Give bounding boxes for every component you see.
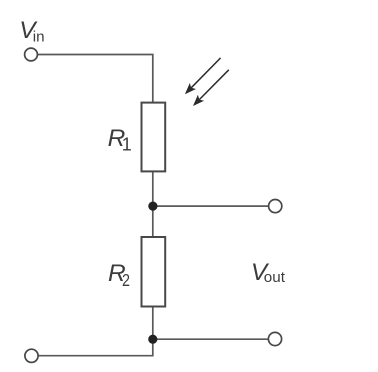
svg-text:1: 1	[122, 134, 132, 154]
wire: R2 bottom to bottom junction	[152, 307, 154, 340]
wire: R1 bottom to mid junction	[152, 171, 154, 206]
label R1	[108, 125, 132, 155]
label Vin	[19, 17, 44, 46]
svg-text:2: 2	[122, 270, 130, 290]
junction node: mid (Vout tap)	[148, 202, 157, 211]
resistor R1 body	[142, 103, 166, 172]
wire: bottom junction to bottom-right terminal	[153, 338, 269, 340]
wire: Vin terminal to top corner then down to R1	[37, 55, 152, 103]
wire: mid junction to Vout mid terminal	[153, 205, 269, 207]
terminal circle: mid-right (Vout top)	[269, 200, 282, 213]
resistor R2 body	[142, 237, 166, 307]
svg-text:out: out	[264, 269, 286, 286]
terminal circle: bottom-right (Vout bottom)	[268, 332, 281, 345]
light arrow 2 (lower)	[193, 70, 229, 106]
label Vout	[251, 259, 286, 286]
wire: bottom junction down then left to bottom-left terminal	[38, 339, 153, 356]
label R2	[108, 260, 130, 290]
wire: mid junction down to R2 top	[152, 206, 154, 237]
svg-text:in: in	[33, 29, 45, 46]
terminal circle: bottom-left	[25, 349, 38, 362]
light arrow 1 (upper)	[185, 58, 221, 94]
terminal circle: Vin (top-left)	[25, 48, 38, 61]
junction node: bottom	[148, 335, 157, 344]
